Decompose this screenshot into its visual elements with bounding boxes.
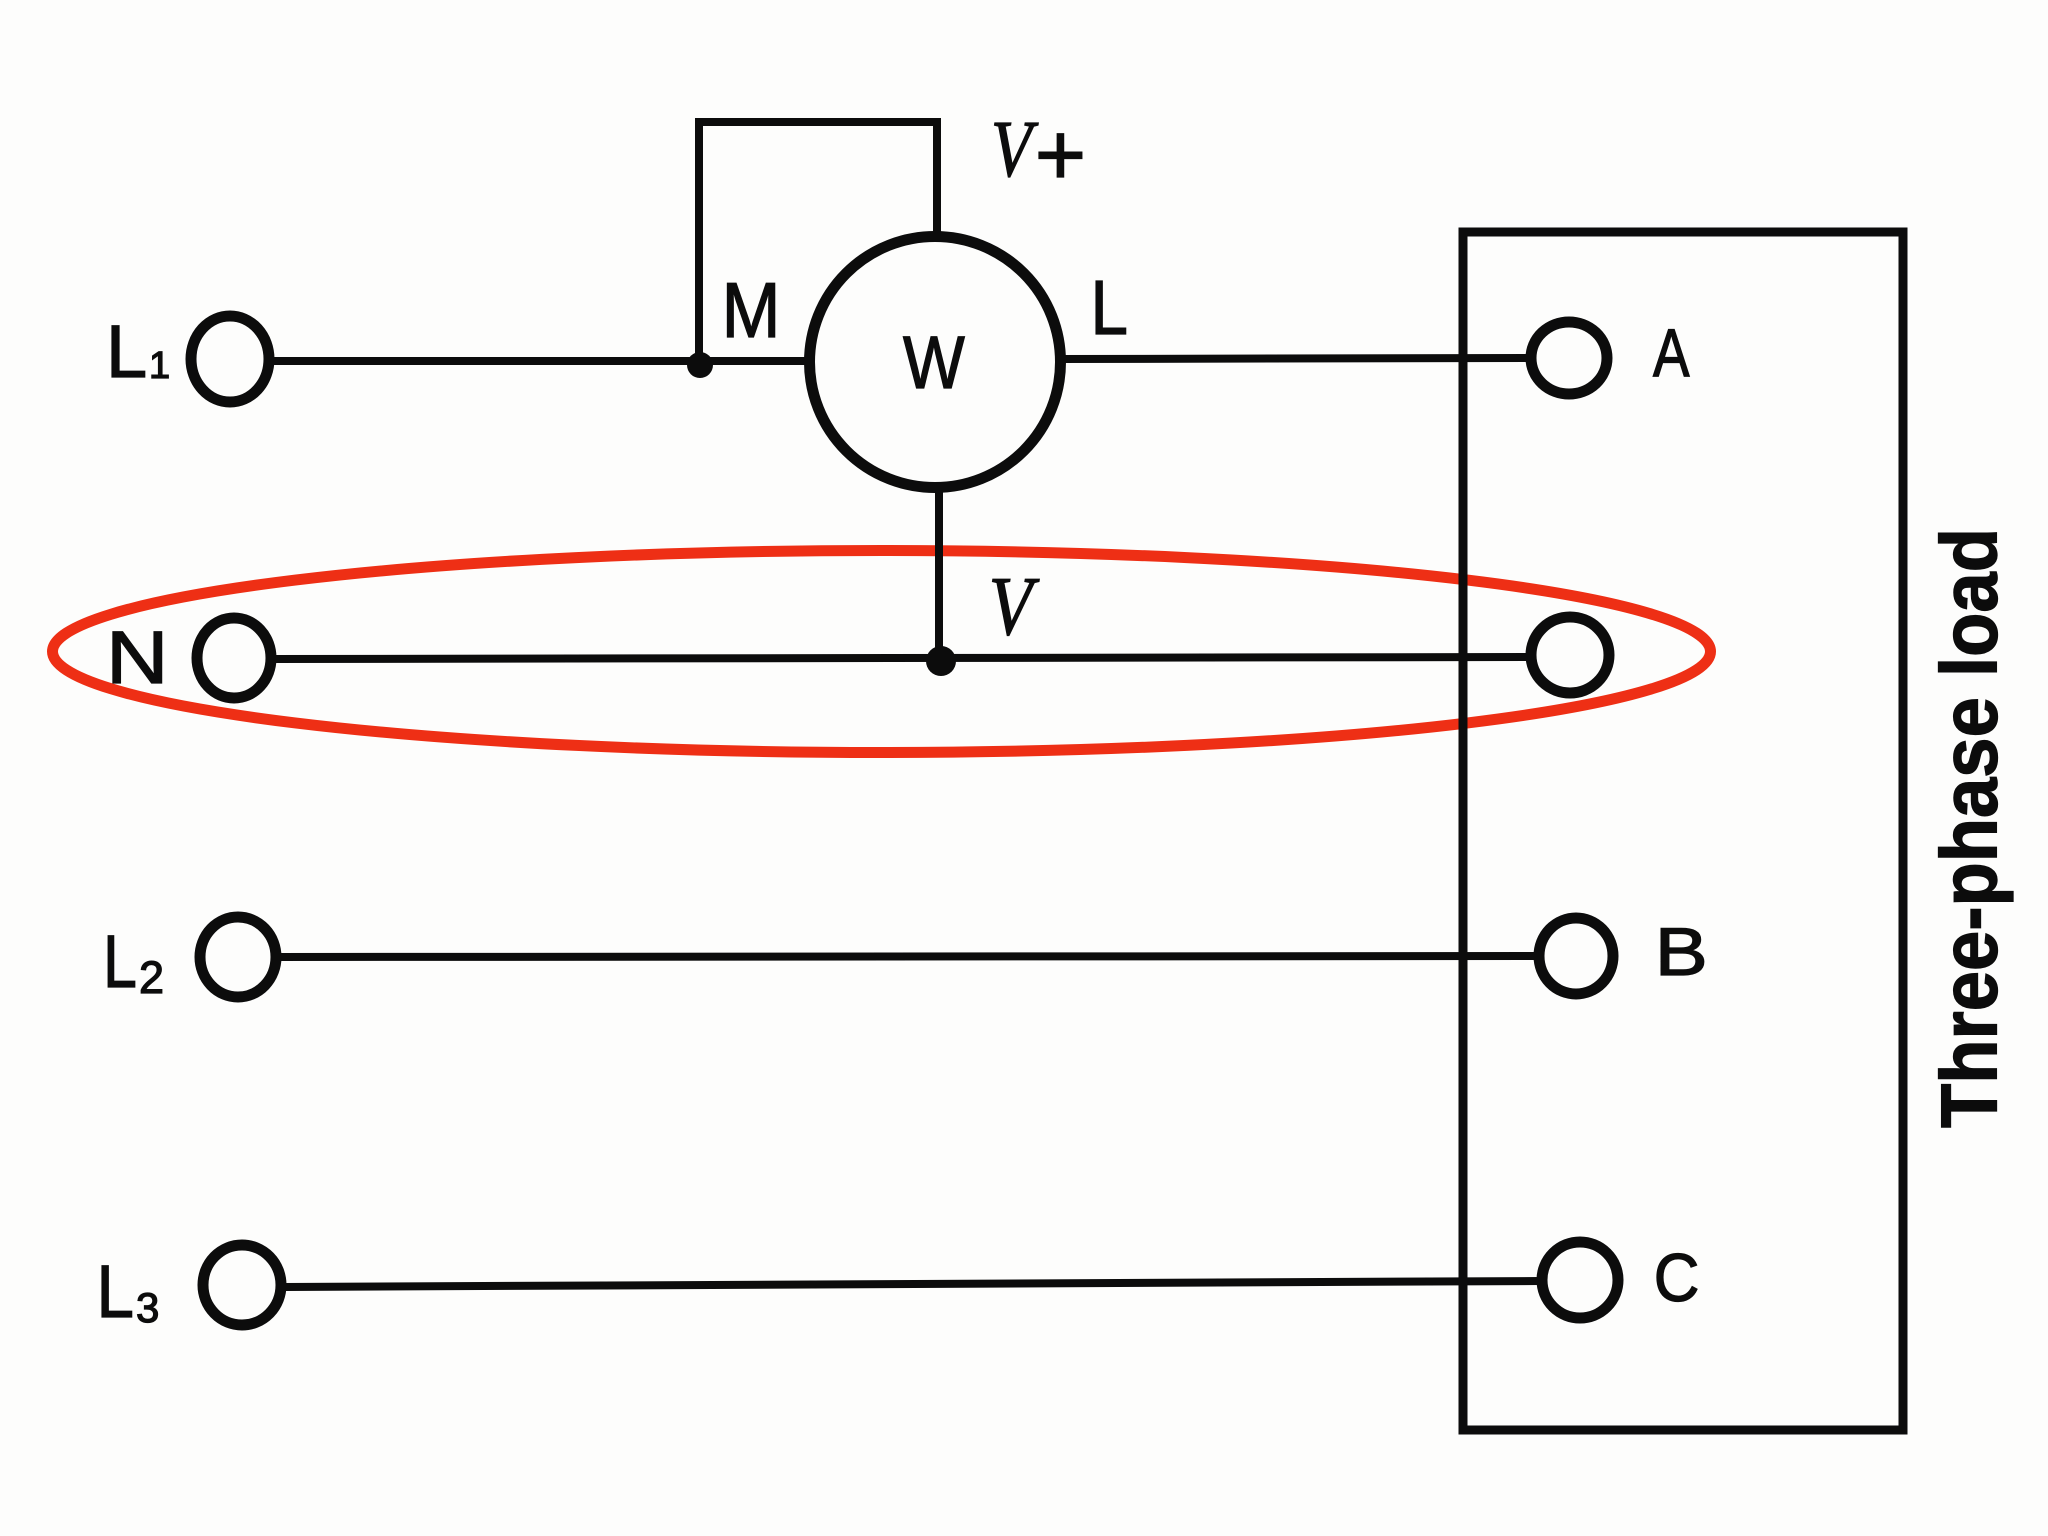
svg-text:2: 2: [139, 952, 164, 1003]
svg-text:V: V: [989, 559, 1040, 653]
svg-text:W: W: [903, 321, 965, 404]
svg-text:+: +: [1035, 105, 1086, 204]
svg-text:B: B: [1655, 913, 1708, 989]
terminal L2 (source): [200, 917, 276, 997]
label V+ (voltage terminal at top): [991, 104, 1086, 204]
svg-text:L: L: [103, 921, 137, 1003]
wire: wattmeter L terminal to load terminal A: [1061, 358, 1530, 359]
svg-text:A: A: [1653, 315, 1690, 391]
wattmeter W (meter circle): [810, 237, 1061, 488]
svg-text:3: 3: [136, 1284, 159, 1331]
label L2: [103, 921, 164, 1003]
node: junction dot on L1 wire (M branch tap): [687, 352, 713, 378]
wire: voltage coil lead from bottom of W down to neutral: [935, 488, 943, 660]
svg-text:V: V: [991, 104, 1039, 193]
terminal: load neutral (unlabeled, right): [1531, 617, 1609, 693]
svg-text:Three-phase load: Three-phase load: [1925, 528, 2014, 1128]
wire: L1 terminal to wattmeter current coil M: [272, 357, 809, 365]
terminal C (load): [1542, 1242, 1618, 1318]
svg-text:L: L: [106, 310, 147, 393]
wire: voltage-coil loop from M tap up and over to V+ terminal on top of W: [699, 122, 937, 361]
highlight ellipse (red) around neutral wire N: [53, 551, 1711, 753]
label L3: [97, 1250, 160, 1333]
svg-text:C: C: [1654, 1240, 1700, 1316]
label L1: [106, 310, 170, 393]
wire: L3 to load terminal C: [285, 1281, 1540, 1287]
svg-text:L: L: [1091, 266, 1128, 351]
svg-text:M: M: [722, 267, 781, 354]
load box: three-phase load outline: [1463, 232, 1903, 1430]
svg-text:L: L: [97, 1250, 134, 1333]
svg-text:1: 1: [149, 345, 170, 387]
terminal N (source neutral): [197, 618, 271, 698]
terminal L1 (source): [191, 316, 269, 402]
terminal L3 (source): [203, 1245, 281, 1325]
wire: L2 to load terminal B: [280, 956, 1537, 957]
terminal B (load): [1539, 918, 1613, 994]
node: junction dot on neutral wire: [926, 646, 956, 676]
svg-text:N: N: [106, 617, 169, 700]
wire: neutral N to load: [275, 657, 1530, 659]
terminal A (load): [1531, 322, 1607, 394]
